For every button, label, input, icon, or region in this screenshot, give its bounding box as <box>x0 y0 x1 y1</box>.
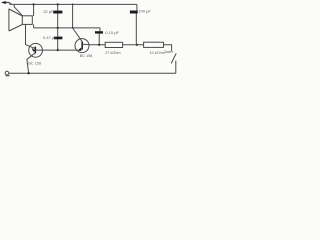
wire R2 to switch <box>164 45 172 51</box>
node C1 top (junction dot) <box>57 3 59 5</box>
node rail drop (junction dot) <box>72 4 74 6</box>
svg-text:100 µF: 100 µF <box>138 9 151 14</box>
wire Q1 base to Q2 emitter <box>36 49 78 51</box>
wire speaker bottom lead <box>33 24 35 28</box>
loudspeaker LS1 <box>9 5 32 31</box>
bottom rail wire <box>9 72 176 74</box>
svg-text:27 kOhm: 27 kOhm <box>105 51 120 55</box>
transistor Q2 base bar <box>81 42 83 50</box>
minus polarity mark <box>6 75 10 77</box>
wire Q2 collector <box>82 43 105 46</box>
svg-text:22 µF: 22 µF <box>43 9 54 14</box>
wire speaker top lead <box>33 4 35 16</box>
transistor Q1 emitter arrow <box>32 48 35 52</box>
capacitor C3 0.15uF <box>95 31 103 33</box>
svg-text:BC 158: BC 158 <box>28 62 41 66</box>
svg-text:10 kOhm: 10 kOhm <box>150 51 165 55</box>
svg-text:Taster: Taster <box>164 50 174 54</box>
switch S1 lever <box>171 53 176 63</box>
transistor Q2 BC158 circle <box>75 39 89 53</box>
svg-text:0,15 µF: 0,15 µF <box>105 30 119 35</box>
wire C4 bottom lead <box>135 14 137 45</box>
capacitor C2 0.47uF <box>54 37 63 40</box>
wire diagonal node A to Q2 base <box>73 29 82 42</box>
node C3 bottom junction dot <box>98 44 100 46</box>
capacitor C3 0.15uF top lead <box>98 28 101 34</box>
wire rail corner to C4 <box>136 4 138 10</box>
wire rail to node A <box>72 4 74 28</box>
node A junction dots <box>57 27 59 29</box>
resistor R2 10kOhm <box>144 42 164 47</box>
svg-text:0,47 µF: 0,47 µF <box>43 35 57 40</box>
wire node A horizontal <box>34 27 100 29</box>
node Q1 collector junction dot <box>27 72 29 74</box>
node coupling junction dot <box>57 49 59 51</box>
wire Q1 collector to bottom rail <box>27 53 35 73</box>
capacitor C3 bottom lead <box>98 34 100 45</box>
wire C1 vertical <box>57 4 59 50</box>
transistor Q2 emitter arrow <box>77 48 81 51</box>
resistor R1 27kOhm <box>105 42 122 47</box>
node R1/R2/C4 junction dot <box>136 44 138 46</box>
top rail wire <box>10 3 137 5</box>
node speaker top (junction dot) <box>33 3 35 5</box>
battery minus terminal <box>5 71 9 75</box>
transistor Q1 base bar <box>34 47 36 54</box>
wire switch to bottom rail <box>175 61 177 74</box>
capacitor C1 22uF <box>53 11 62 14</box>
wire Q1 emitter from speaker <box>26 24 36 48</box>
svg-text:BC 158: BC 158 <box>80 54 93 58</box>
wire R1 to R2 <box>123 44 144 46</box>
supply arrow terminal <box>1 1 12 4</box>
transistor Q1 BC158 circle <box>29 43 43 57</box>
capacitor C4 100uF <box>130 11 138 14</box>
